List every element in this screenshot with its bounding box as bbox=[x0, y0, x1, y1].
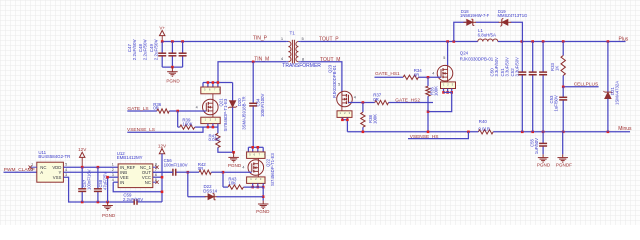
Q21 source block bbox=[212, 113, 214, 117]
wire TIN_M bbox=[218, 62, 286, 83]
svg-text:100nF/100V: 100nF/100V bbox=[164, 162, 188, 167]
wire Q21 gate bbox=[127, 110, 157, 112]
svg-text:1uF/50V: 1uF/50V bbox=[534, 138, 539, 154]
diode D22 DSS14 bbox=[188, 196, 206, 198]
wire VSENSE_LS bbox=[127, 127, 203, 132]
capacitor C48 bbox=[171, 42, 173, 54]
svg-text:GATE_HS1: GATE_HS1 bbox=[375, 71, 400, 77]
diode D18 1N5819HW-7-F bbox=[463, 21, 466, 23]
wire Q22 drain bbox=[248, 146, 263, 148]
svg-text:0R: 0R bbox=[373, 97, 379, 102]
wire VSS to ground rail bbox=[63, 177, 133, 202]
capacitor C58 47uF/25V bbox=[97, 167, 99, 189]
diode D21 1SMA4732A (zener) bbox=[607, 42, 609, 93]
U12 pin 5 no-connect bbox=[153, 181, 157, 183]
svg-text:PGNDF: PGNDF bbox=[556, 163, 572, 168]
ground PGND under C47-C49 bbox=[171, 67, 173, 71]
svg-text:4: 4 bbox=[242, 166, 244, 170]
Q22 drain block bbox=[247, 152, 265, 159]
capacitor C49 bbox=[182, 42, 184, 54]
svg-text:2.2uF/50V: 2.2uF/50V bbox=[153, 39, 158, 60]
svg-text:MMSZ4713T1G: MMSZ4713T1G bbox=[498, 13, 528, 18]
wire Q21 drain bbox=[203, 82, 233, 84]
capacitor C59 2.2uF/50V bbox=[137, 201, 162, 203]
wire V+ rail to TIN_P (net TIN_P) bbox=[162, 41, 286, 43]
wire TOUT_P rail (net Plus) bbox=[301, 41, 478, 43]
wire VDD rail U11-U12 bbox=[63, 166, 118, 168]
svg-text:PGND: PGND bbox=[102, 213, 116, 218]
inductor L1 6.8uH/5A bbox=[478, 39, 498, 42]
transistor Q23 RJK0330DPB-01 bbox=[337, 91, 353, 107]
svg-text:2.2uF/50V: 2.2uF/50V bbox=[132, 39, 137, 60]
svg-text:5: 5 bbox=[338, 83, 340, 87]
capacitor C50 3.3uF/50V bbox=[521, 42, 523, 73]
resistor R40 0.01R bbox=[478, 130, 493, 134]
svg-text:12V: 12V bbox=[78, 147, 87, 152]
wire Q24 source bbox=[443, 89, 445, 93]
wire VSENSE_HS stub bbox=[408, 132, 468, 139]
svg-text:PGND: PGND bbox=[166, 79, 180, 84]
resistor R39 100K bbox=[177, 111, 179, 127]
U11 pin 1 NC bbox=[31, 166, 37, 168]
svg-text:4: 4 bbox=[196, 105, 198, 109]
U12 pin 8 no-connect bbox=[153, 166, 157, 168]
svg-text:0.030: 0.030 bbox=[209, 137, 221, 142]
svg-text:GATE_LS: GATE_LS bbox=[127, 106, 148, 112]
junction dots on V+ rail bbox=[161, 40, 164, 43]
ground PGND under Q22 bbox=[262, 187, 264, 201]
capacitor C57 100nF/16V bbox=[81, 167, 83, 189]
svg-text:100K: 100K bbox=[372, 114, 377, 124]
svg-text:2.2uF/50V: 2.2uF/50V bbox=[123, 197, 143, 202]
svg-text:VSS: VSS bbox=[53, 175, 62, 180]
svg-text:1: 1 bbox=[112, 163, 114, 167]
svg-text:10K: 10K bbox=[228, 180, 236, 185]
svg-text:Plus: Plus bbox=[619, 37, 629, 43]
svg-text:T1: T1 bbox=[290, 30, 296, 35]
diode D19 MMSZ4713T1G (zener) bbox=[499, 21, 502, 23]
Q21 drain block bbox=[201, 87, 220, 94]
svg-text:R40: R40 bbox=[479, 119, 488, 124]
svg-text:BU4S584G2-TR: BU4S584G2-TR bbox=[38, 154, 70, 159]
resistor R35 100K bbox=[427, 77, 429, 86]
capacitor C54 100nF/100V bbox=[252, 62, 254, 104]
svg-text:1: 1 bbox=[31, 163, 33, 167]
resistor R42 0R bbox=[199, 170, 211, 174]
svg-text:3: 3 bbox=[65, 173, 67, 177]
wire Q24 drain from Plus rail bbox=[447, 42, 449, 66]
resistor R43 10K bbox=[222, 172, 224, 187]
svg-text:PGND: PGND bbox=[256, 209, 270, 214]
svg-text:IN: IN bbox=[120, 180, 124, 185]
wire CELLPLUS stub bbox=[563, 86, 598, 88]
ground PGND bottom right bbox=[538, 157, 549, 159]
wire OUT pin to C56 bbox=[153, 171, 173, 173]
svg-text:SI7846DP-T1-E3: SI7846DP-T1-E3 bbox=[223, 98, 228, 131]
resistor R38 100K bbox=[362, 103, 364, 113]
svg-text:1N5819HW-7-F: 1N5819HW-7-F bbox=[460, 13, 490, 18]
svg-text:V+: V+ bbox=[159, 25, 165, 30]
svg-text:4: 4 bbox=[112, 178, 114, 182]
power 12V at U11 bbox=[80, 152, 85, 157]
svg-text:2: 2 bbox=[112, 168, 114, 172]
svg-text:47uF/25V: 47uF/25V bbox=[102, 172, 107, 190]
svg-text:5: 5 bbox=[443, 56, 445, 60]
svg-text:3.3uF/50V: 3.3uF/50V bbox=[494, 57, 499, 77]
capacitor C53 1uF/50V bbox=[562, 87, 564, 98]
power 12V at U12 VCC bbox=[159, 149, 164, 154]
svg-text:2: 2 bbox=[31, 168, 33, 172]
Q24 source block bbox=[447, 79, 449, 82]
svg-text:100nF/100V: 100nF/100V bbox=[260, 93, 265, 117]
svg-text:A: A bbox=[40, 170, 43, 175]
wire D18-D19 branch bbox=[454, 22, 466, 41]
transistor Q22 SI7456DP-T1-E3 bbox=[257, 158, 259, 161]
svg-text:100nF/16V: 100nF/16V bbox=[87, 169, 92, 190]
resistor R41 0.030 bbox=[217, 127, 219, 133]
wire minus rail / VSENSE_HS net bbox=[347, 131, 478, 133]
wire TOUT_M bbox=[301, 62, 342, 92]
svg-text:1K: 1K bbox=[555, 66, 560, 71]
svg-text:TRANSFORMER: TRANSFORMER bbox=[282, 63, 321, 69]
resistor R33 1K bbox=[562, 42, 564, 56]
svg-text:3SMAJ5918B-TR: 3SMAJ5918B-TR bbox=[241, 96, 246, 129]
svg-text:6.8uH/5A: 6.8uH/5A bbox=[478, 33, 496, 38]
svg-text:3.3uF/50V: 3.3uF/50V bbox=[515, 57, 520, 77]
capacitor C56 100nF/100V bbox=[153, 171, 173, 173]
svg-text:DSS14: DSS14 bbox=[203, 188, 217, 193]
transistor Q24 RJK0330DPB-01 bbox=[437, 65, 453, 81]
svg-text:EMB1412MY: EMB1412MY bbox=[117, 155, 143, 160]
svg-text:PGND: PGND bbox=[228, 163, 242, 168]
capacitor C51 3.3uF/50V bbox=[532, 42, 534, 73]
junction dots on Plus rail bbox=[446, 40, 449, 43]
svg-text:3.3uF/50V: 3.3uF/50V bbox=[504, 57, 509, 77]
svg-text:0R: 0R bbox=[414, 72, 420, 77]
svg-text:12V: 12V bbox=[158, 143, 167, 148]
wire cap bottoms bbox=[162, 66, 182, 68]
resistor R37 0R bbox=[375, 100, 389, 104]
wire C53 to PGNDF bbox=[562, 132, 564, 155]
diode D20 3SMAJ5918B-TR (TVS) bbox=[232, 83, 234, 101]
svg-text:4: 4 bbox=[65, 168, 67, 172]
ground PGND under Q21 bbox=[233, 152, 235, 157]
ground PGND under U11 bbox=[106, 201, 109, 204]
wire Q22 source bbox=[252, 183, 254, 187]
Q22 source block bbox=[257, 174, 259, 177]
svg-text:2.2uF/50V: 2.2uF/50V bbox=[143, 39, 148, 60]
svg-text:Q24: Q24 bbox=[460, 51, 469, 56]
resistor R36 0R bbox=[157, 109, 169, 113]
wire PWM_CLAMP bbox=[4, 171, 37, 173]
svg-text:PGND: PGND bbox=[537, 163, 551, 168]
wire Q22 gate bbox=[223, 171, 252, 173]
svg-text:0.01R: 0.01R bbox=[478, 127, 490, 132]
U12 pin 3 VEE wire to ground bbox=[108, 176, 119, 178]
svg-text:5: 5 bbox=[65, 163, 67, 167]
svg-text:GATE_HS2: GATE_HS2 bbox=[395, 97, 420, 103]
svg-text:3: 3 bbox=[112, 173, 114, 177]
svg-text:Minus: Minus bbox=[618, 126, 632, 132]
svg-text:0R: 0R bbox=[198, 166, 204, 171]
wire Q21 source bbox=[207, 124, 209, 128]
capacitor C47 bbox=[161, 42, 163, 54]
Q23 source block bbox=[341, 107, 343, 111]
wire Y to INB bbox=[63, 171, 118, 173]
transistor Q21 SI7846DP-T1-E3 bbox=[212, 94, 214, 101]
svg-text:TIN_P: TIN_P bbox=[253, 36, 268, 42]
wire Q23 source to minus rail bbox=[341, 117, 343, 119]
svg-text:1SMA4732A: 1SMA4732A bbox=[614, 81, 619, 105]
svg-text:100K: 100K bbox=[182, 122, 192, 127]
svg-text:100K: 100K bbox=[434, 86, 439, 96]
svg-text:0R: 0R bbox=[153, 106, 159, 111]
capacitor C55 1uF/50V bbox=[542, 132, 544, 144]
svg-text:RJK0330DPB-01: RJK0330DPB-01 bbox=[332, 65, 337, 98]
junction dots minus rail bbox=[362, 131, 365, 134]
wire Q23 gate bbox=[348, 102, 375, 104]
svg-text:1uF/50V: 1uF/50V bbox=[554, 95, 559, 111]
capacitor C52 3.3uF/50V bbox=[542, 42, 544, 73]
svg-text:SI7456DP-T1-E3: SI7456DP-T1-E3 bbox=[270, 153, 275, 186]
svg-text:4: 4 bbox=[432, 72, 434, 76]
wire D22 to gate node bbox=[187, 172, 189, 197]
svg-text:4: 4 bbox=[354, 96, 356, 100]
resistor R34 0R bbox=[403, 75, 418, 79]
wire VCC vertical bbox=[161, 154, 163, 202]
power V+ bbox=[160, 30, 165, 35]
svg-text:RJK0330DPB-01: RJK0330DPB-01 bbox=[460, 56, 494, 61]
svg-text:6: 6 bbox=[155, 173, 157, 177]
U12 pin 4 IN wire bbox=[113, 181, 118, 183]
svg-text:NC: NC bbox=[145, 180, 151, 185]
ground PGNDF bbox=[557, 157, 568, 159]
